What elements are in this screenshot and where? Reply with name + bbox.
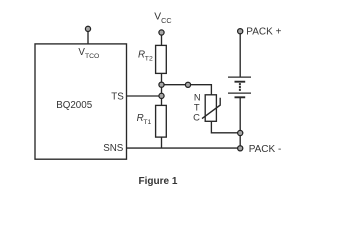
svg-text:PACK -: PACK - [249, 144, 282, 155]
node thermistor tap [185, 82, 190, 87]
svg-text:T2: T2 [145, 56, 153, 63]
IC U1 BQ2005 [35, 44, 127, 159]
wire [161, 137, 163, 148]
svg-text:SNS: SNS [103, 143, 124, 154]
svg-text:T1: T1 [143, 119, 151, 126]
node TS junction upper [159, 82, 164, 87]
wire [161, 73, 163, 84]
terminal PACK- [238, 146, 243, 151]
resistor R_T2 [156, 45, 167, 73]
terminal VTCO [85, 26, 90, 31]
thermistor RT NTC [202, 95, 220, 122]
wire [239, 34, 241, 77]
wire [162, 85, 212, 95]
wire [239, 97, 241, 148]
svg-text:BQ2005: BQ2005 [56, 100, 93, 111]
wire [211, 121, 240, 133]
node battery negative [238, 130, 243, 135]
svg-text:Figure 1: Figure 1 [139, 176, 178, 187]
terminal PACK+ [238, 29, 243, 34]
battery B1 [228, 77, 251, 97]
svg-text:VCC: VCC [154, 12, 171, 25]
wire [87, 31, 89, 45]
terminal VCC [159, 30, 164, 35]
wire [127, 147, 241, 149]
svg-text:C: C [193, 112, 200, 123]
resistor R_T1 [156, 105, 167, 137]
wire [127, 95, 162, 97]
node TS junction lower [159, 93, 164, 98]
wire [161, 35, 163, 46]
svg-text:PACK +: PACK + [246, 27, 281, 38]
wire [161, 85, 163, 106]
svg-text:TS: TS [111, 91, 124, 102]
